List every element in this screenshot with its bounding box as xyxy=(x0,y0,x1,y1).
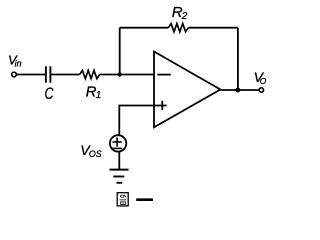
wire feedback top left xyxy=(120,27,169,29)
node Vin terminal xyxy=(12,72,17,77)
wire R1 to op-amp inverting input xyxy=(100,74,154,76)
wire op-amp noninverting input xyxy=(119,105,166,107)
node A junction dot xyxy=(118,72,122,76)
label R1 xyxy=(86,83,102,101)
wire C to R1 xyxy=(51,74,79,76)
node output junction dot xyxy=(235,88,240,93)
svg-text:C: C xyxy=(45,85,54,103)
wire Vin to C xyxy=(16,74,45,76)
wire feedback down to output xyxy=(237,28,239,90)
label R2 xyxy=(172,4,188,22)
op-amp U1 plus sign xyxy=(161,101,163,110)
wire noninverting input down to Vos xyxy=(118,105,120,136)
svg-text:in: in xyxy=(15,59,22,69)
label VOS xyxy=(80,142,102,159)
svg-text:OS: OS xyxy=(89,149,102,159)
op-amp U1 xyxy=(154,52,220,128)
label Vin xyxy=(8,52,22,68)
op-amp U1 minus sign xyxy=(157,74,170,76)
svg-text:1: 1 xyxy=(96,90,102,101)
capacitor C1 xyxy=(46,66,51,82)
wire feedback top right xyxy=(188,27,238,29)
wire op-amp output xyxy=(220,89,259,91)
resistor R1 xyxy=(80,70,100,78)
wire Vos to ground xyxy=(118,152,120,170)
wire node A up to feedback xyxy=(119,28,121,75)
voltage source VOS xyxy=(110,135,126,151)
svg-text:O: O xyxy=(260,76,267,86)
ground xyxy=(110,170,129,183)
svg-text:2: 2 xyxy=(181,11,188,22)
label Vo xyxy=(254,69,267,86)
resistor R2 xyxy=(168,24,188,32)
node Vo terminal xyxy=(259,88,263,92)
caption figure one xyxy=(117,193,153,206)
